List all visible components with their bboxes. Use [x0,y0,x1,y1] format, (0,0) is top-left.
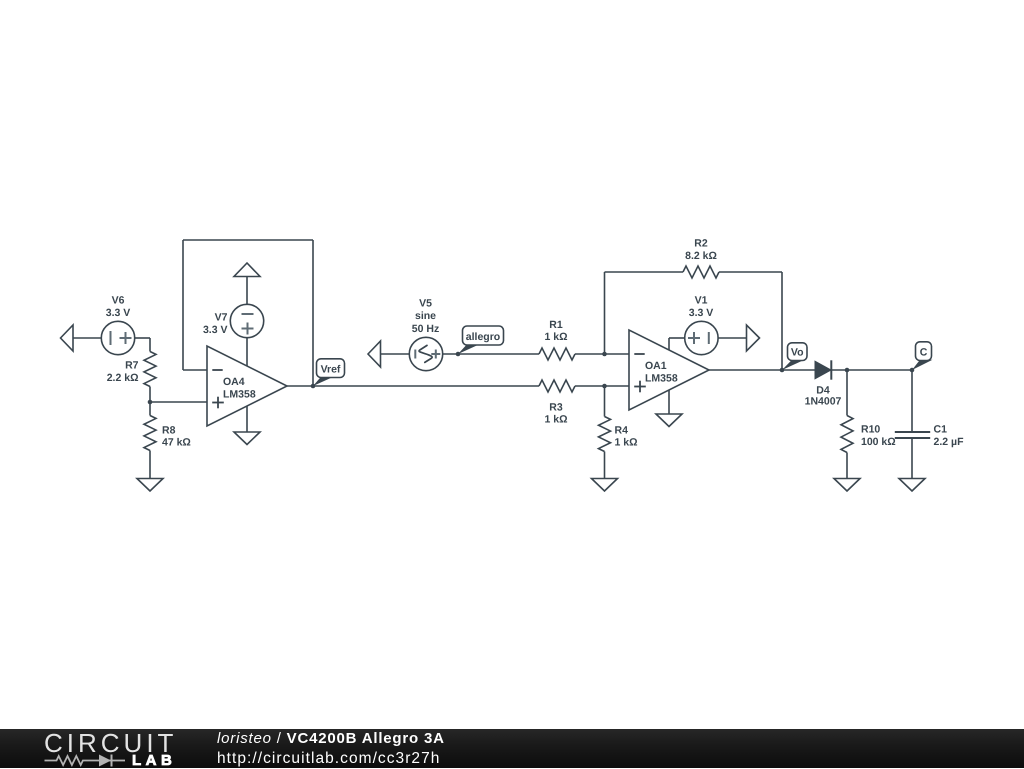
svg-text:V1: V1 [695,295,708,307]
svg-text:OA4: OA4 [223,376,245,388]
svg-text:1 kΩ: 1 kΩ [544,331,567,343]
svg-text:3.3 V: 3.3 V [203,324,228,336]
svg-text:50 Hz: 50 Hz [412,323,439,335]
svg-text:allegro: allegro [466,331,500,343]
svg-text:C1: C1 [934,424,948,436]
svg-text:LM358: LM358 [645,373,678,385]
svg-text:R1: R1 [549,319,563,331]
svg-text:3.3 V: 3.3 V [689,307,714,319]
svg-text:V5: V5 [419,298,432,310]
svg-text:sine: sine [415,310,436,322]
svg-text:Vo: Vo [791,347,804,359]
svg-text:V6: V6 [112,295,125,307]
svg-text:1 kΩ: 1 kΩ [544,414,567,426]
svg-text:R2: R2 [694,238,708,250]
svg-text:R7: R7 [125,360,139,372]
svg-text:1 kΩ: 1 kΩ [615,437,638,449]
svg-text:R3: R3 [549,402,563,414]
svg-text:LM358: LM358 [223,389,256,401]
svg-text:100 kΩ: 100 kΩ [861,436,896,448]
svg-text:2.2 µF: 2.2 µF [934,436,965,448]
svg-text:1N4007: 1N4007 [805,396,842,408]
svg-text:2.2 kΩ: 2.2 kΩ [107,372,139,384]
svg-text:R4: R4 [615,425,629,437]
svg-text:3.3 V: 3.3 V [106,307,131,319]
svg-text:R10: R10 [861,424,880,436]
svg-text:47 kΩ: 47 kΩ [162,437,191,449]
svg-text:V7: V7 [215,312,228,324]
svg-text:R8: R8 [162,425,176,437]
svg-text:C: C [920,347,928,359]
svg-text:Vref: Vref [321,364,341,376]
svg-text:OA1: OA1 [645,360,667,372]
svg-text:8.2 kΩ: 8.2 kΩ [685,250,717,262]
